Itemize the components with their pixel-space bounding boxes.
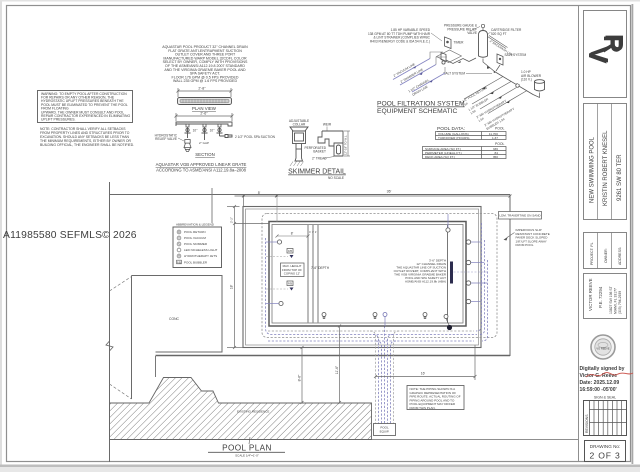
timer panel: [445, 37, 452, 49]
svg-text:ASME/ANSI A112.19.8b (ABA): ASME/ANSI A112.19.8b (ABA): [405, 280, 446, 284]
svg-text:ACCORDING TO ASME/ANSI A112.19: ACCORDING TO ASME/ANSI A112.19.8a–2008: [156, 168, 247, 173]
pool data table 1: [436, 132, 507, 140]
svg-text:H: H: [178, 255, 180, 258]
piping note box: [407, 386, 464, 410]
svg-text:P.E. 72294: P.E. 72294: [598, 286, 603, 308]
property line left: [109, 182, 111, 462]
svg-text:R: R: [600, 34, 628, 52]
svg-text:EXISTING RESIDENCE: EXISTING RESIDENCE: [237, 410, 269, 414]
svg-text:Date: 2025.12.09: Date: 2025.12.09: [580, 380, 620, 386]
seal: [591, 335, 615, 359]
svg-text:BUILDING OFFICIAL, THE ENGINEE: BUILDING OFFICIAL, THE ENGINEER SHALL BE…: [40, 143, 134, 147]
svg-text:8'-6": 8'-6": [298, 374, 302, 382]
svg-text:EQUIP.: EQUIP.: [380, 430, 390, 434]
svg-text:BASKET: BASKET: [313, 150, 326, 154]
svg-text:2" TREAD: 2" TREAD: [312, 157, 327, 161]
return branch lines: [464, 77, 527, 114]
svg-text:2'-6": 2'-6": [200, 112, 208, 116]
pool data table 2: [423, 147, 507, 159]
svg-text:UPLIFT PRESSURES.: UPLIFT PRESSURES.: [41, 118, 75, 122]
svg-text:KRISTIN ROBERT KNESEL: KRISTIN ROBERT KNESEL: [603, 130, 609, 206]
svg-text:11'-6": 11'-6": [335, 365, 339, 374]
svg-text:36': 36': [387, 190, 392, 194]
svg-text:F/B: F/B: [177, 262, 181, 265]
svg-text:TURNOVER (HOURS): TURNOVER (HOURS): [438, 136, 469, 140]
svg-text:350: 350: [493, 155, 498, 159]
svg-text:REVISIONS: REVISIONS: [585, 414, 589, 433]
svg-text:SALT SYSTEM: SALT SYSTEM: [443, 72, 465, 76]
svg-text:POOL RETURN: POOL RETURN: [184, 230, 206, 234]
arrows on pump-filter line: [458, 61, 461, 63]
svg-text:SIGN & SEAL: SIGN & SEAL: [594, 396, 616, 400]
title block divider: [578, 6, 580, 462]
grate section bar: [176, 122, 232, 126]
filter cylinder U1: [479, 24, 488, 57]
svg-text:SKIMMER DETAIL: SKIMMER DETAIL: [288, 169, 346, 176]
svg-text:POOL FILTRATION SYSTEM: POOL FILTRATION SYSTEM: [377, 101, 465, 108]
fitting squares: [515, 83, 519, 87]
fence line bottom: [156, 355, 511, 357]
right blue risers: [476, 223, 488, 341]
svg-text:TIMER: TIMER: [454, 41, 465, 45]
svg-text:2'-2": 2'-2": [230, 217, 234, 223]
drawing number box: [585, 441, 626, 462]
aquastar product note: [162, 45, 248, 83]
top dimension 36ft: [235, 195, 512, 207]
svg-text:FROM THIS PLAN.: FROM THIS PLAN.: [410, 406, 436, 410]
svg-text:POOL BUBBLER: POOL BUBBLER: [184, 261, 208, 265]
main return line: [495, 72, 534, 95]
piping loop gray: [262, 214, 497, 338]
project info box: [584, 104, 627, 220]
svg-text:VICTOR REEVE: VICTOR REEVE: [588, 278, 593, 311]
svg-text:DRAWING No:: DRAWING No:: [590, 444, 620, 449]
channel drain bar: [450, 262, 453, 284]
svg-text:PLAN VIEW: PLAN VIEW: [192, 106, 217, 111]
equipment pad: [437, 50, 462, 63]
skimmer body left: [290, 127, 308, 161]
arrows on return branches: [482, 87, 486, 90]
top wall marker: [446, 228, 450, 232]
red signature scrawl: [586, 372, 633, 377]
bottom line: [372, 439, 579, 441]
svg-text:COPING 12": COPING 12": [284, 271, 300, 275]
dim extension from pool wall up: [276, 196, 278, 222]
piping loop blue left: [266, 238, 478, 335]
svg-text:16:59:00 -05'00': 16:59:00 -05'00': [580, 387, 617, 393]
depth note right: [394, 259, 447, 284]
paver note: [516, 228, 550, 247]
svg-text:5': 5': [258, 191, 261, 195]
pump spec note: [368, 28, 431, 43]
svg-text:LED NICHELESS LIGHT: LED NICHELESS LIGHT: [184, 248, 218, 252]
bottom dims vertical 11'-6": [338, 325, 341, 405]
svg-text:POOL SKIMMER: POOL SKIMMER: [184, 242, 208, 246]
svg-text:PROJECT: FL: PROJECT: FL: [590, 242, 594, 265]
svg-text:10": 10": [193, 129, 198, 133]
hydrostatic relief valve: [184, 140, 191, 152]
warning note box: [38, 91, 133, 123]
salt system panel: [497, 54, 503, 65]
deck outer: [243, 207, 481, 348]
revisions grid: [584, 401, 627, 436]
svg-text:16': 16': [421, 372, 426, 376]
bottom dim 16ft: [374, 345, 477, 380]
svg-text:1.37: 1.37: [492, 136, 498, 140]
svg-text:ADDRESS:: ADDRESS:: [618, 247, 622, 265]
skimmer section right: [318, 131, 343, 156]
vacuum line connectors: [430, 52, 447, 73]
anchor posts: [185, 127, 223, 140]
pump symbol: [441, 53, 446, 65]
property line top: [110, 194, 511, 196]
residence patio outline: [132, 276, 223, 353]
svg-text:VG REEVE: VG REEVE: [596, 347, 610, 351]
svg-text:COLLAR: COLLAR: [293, 123, 306, 127]
pool plan title: [249, 437, 250, 444]
left wall markers: [277, 240, 283, 306]
svg-text:LDM. TRAVERTINE ON SAND: LDM. TRAVERTINE ON SAND: [499, 214, 541, 218]
pool wall inner: [272, 225, 463, 324]
svg-text:POOL VACUUM: POOL VACUUM: [184, 236, 206, 240]
dim line right: [344, 131, 350, 156]
bench: [447, 225, 449, 323]
labels box: [584, 233, 627, 269]
svg-text:RELIEF VALVE: RELIEF VALVE: [155, 137, 177, 141]
svg-text:10": 10": [210, 129, 215, 133]
plan view dim 2'-8": [177, 88, 233, 97]
bottom wall markers: [322, 313, 448, 319]
svg-text:8': 8': [291, 232, 294, 236]
grate plan view: [178, 98, 232, 105]
VR logo: [583, 34, 628, 64]
left dimension: [227, 205, 269, 349]
section dim 2'-6": [175, 113, 234, 121]
pressure gauge label: [444, 24, 478, 36]
svg-text:EQUIPMENT SCHEMATIC: EQUIPMENT SCHEMATIC: [377, 108, 458, 115]
svg-text:1' 1' 1': 1' 1' 1': [309, 230, 317, 234]
svg-text:9261 SW 80 TER: 9261 SW 80 TER: [617, 154, 623, 201]
svg-text:12"-18" TO W.L.: 12"-18" TO W.L.: [344, 135, 348, 155]
travertine label box: [499, 212, 542, 220]
svg-text:(110 V.): (110 V.): [521, 78, 532, 82]
svg-text:F/B: F/B: [288, 282, 292, 286]
svg-text:FROM POOL: FROM POOL: [516, 243, 534, 247]
photo bottom edge: [0, 465, 640, 468]
svg-text:NO SCALE: NO SCALE: [328, 176, 344, 180]
svg-text:SALT SYSTEM: SALT SYSTEM: [505, 53, 527, 57]
svg-text:R403 R\ENERGY CODE & IDA 54 N.: R403 R\ENERGY CODE & IDA 54 N.E.C.): [370, 39, 430, 43]
svg-text:2'-8": 2'-8": [198, 87, 206, 91]
svg-text:SCALE 1/4"=1'-0": SCALE 1/4"=1'-0": [235, 454, 259, 458]
svg-text:POOL: POOL: [495, 142, 505, 146]
svg-text:2" GAP: 2" GAP: [199, 141, 209, 145]
svg-text:AQUASTAR VGB APPROVED LINEAR G: AQUASTAR VGB APPROVED LINEAR GRATE: [156, 162, 247, 167]
max height box: [281, 263, 305, 277]
svg-text:MIAMI, FL 33177: MIAMI, FL 33177: [614, 288, 618, 314]
dim 8ft inside pool: [276, 235, 310, 238]
piping loop blue row4: [268, 340, 474, 342]
svg-text:(305) 794-2939: (305) 794-2939: [618, 291, 622, 314]
svg-text:2 1/2" POOL SPA SUCTION: 2 1/2" POOL SPA SUCTION: [235, 135, 276, 139]
svg-text:18': 18': [230, 284, 234, 289]
existing wall stub: [211, 188, 213, 223]
svg-text:A11985580 SEFMLS© 2026: A11985580 SEFMLS© 2026: [3, 230, 137, 241]
arrows on suction lines: [413, 66, 417, 69]
svg-text:Digitally signed by: Digitally signed by: [580, 366, 625, 372]
svg-text:POOL: POOL: [495, 127, 505, 131]
svg-text:2 OF 3: 2 OF 3: [589, 451, 620, 461]
setback note: [40, 127, 134, 147]
property line right: [509, 195, 511, 357]
svg-text:CONC: CONC: [169, 317, 180, 321]
blower cylinder: [535, 80, 545, 91]
svg-text:POOL PLAN: POOL PLAN: [222, 444, 272, 453]
right wall markers: [466, 240, 470, 304]
porch braces: [110, 277, 132, 400]
piping loop blue row2: [268, 330, 474, 332]
backwash line: [488, 36, 508, 49]
svg-text:VALVE: VALVE: [467, 31, 477, 35]
bottom dims vertical 8'-6": [301, 346, 304, 404]
deck inner: [246, 209, 479, 345]
svg-text:7'-6" DEPTH: 7'-6" DEPTH: [311, 266, 330, 270]
svg-text:F/B: F/B: [288, 249, 292, 253]
pipe pump to filter: [446, 58, 495, 72]
svg-text:13827 SW 198 ST: 13827 SW 198 ST: [609, 286, 613, 314]
existing residence hatch: [110, 378, 372, 440]
pool wall outer: [269, 222, 466, 327]
svg-text:OWNER:: OWNER:: [604, 248, 608, 263]
main drain dot: [447, 325, 452, 330]
svg-text:WEIR: WEIR: [323, 123, 332, 127]
svg-text:NEW SWIMMING POOL: NEW SWIMMING POOL: [590, 136, 596, 203]
svg-text:WALL 235 GPM @ 1.6 FPS PROVIDE: WALL 235 GPM @ 1.6 FPS PROVIDED: [173, 79, 238, 83]
svg-text:520 SQ FT: 520 SQ FT: [491, 32, 507, 36]
sheet right shadow edge: [632, 4, 634, 464]
vacuum line: [393, 59, 445, 93]
pool equip box: [374, 424, 396, 436]
bubbler symbols left: [266, 249, 294, 291]
engineer box: [584, 274, 627, 319]
svg-text:HYDROTHERAPY JETS: HYDROTHERAPY JETS: [184, 254, 217, 258]
suction pipe elbow: [220, 135, 233, 138]
break symbol: [106, 341, 113, 351]
svg-text:R: R: [178, 231, 180, 234]
svg-text:DECK AREA (SQ FT.): DECK AREA (SQ FT.): [425, 155, 455, 159]
down pipe bundle to equipment: [373, 326, 396, 424]
svg-text:ABBREVIATION & LEGEND: ABBREVIATION & LEGEND: [176, 223, 215, 227]
VR logo box: [584, 11, 627, 98]
steps: [308, 225, 318, 323]
svg-text:SECTION: SECTION: [195, 152, 215, 157]
